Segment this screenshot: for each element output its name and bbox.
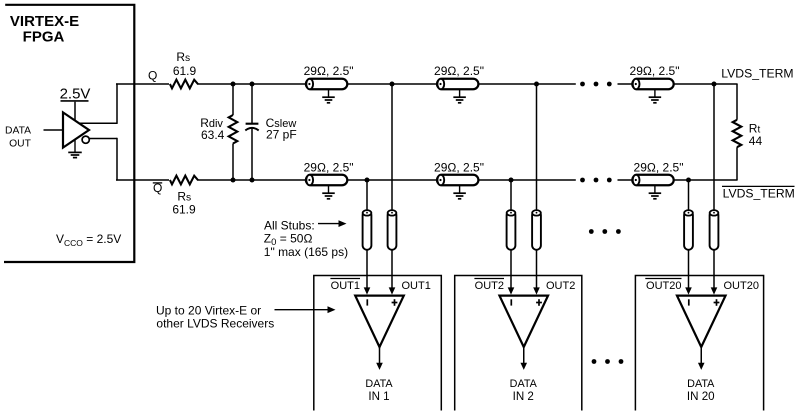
wire output receiver 20: [700, 347, 702, 363]
comparator triangle receiver 20: [677, 296, 726, 347]
wire output receiver 1: [379, 347, 381, 363]
stub (coax) right receiver 1: [388, 211, 397, 250]
svg-text:LVDS_TERM: LVDS_TERM: [721, 67, 793, 81]
wire bottom rail Qbar: [116, 179, 169, 181]
wire 2.5V to buffer: [74, 102, 76, 122]
junction dot bottom rail x=688.5: [686, 178, 691, 183]
svg-text:29Ω, 2.5": 29Ω, 2.5": [634, 160, 684, 174]
transmission line TL2b 29ohm (bottom rail): [437, 175, 478, 186]
pin minus: [510, 299, 512, 305]
pin plus: [536, 302, 542, 304]
svg-text:OUT: OUT: [9, 139, 31, 150]
ellipsis (bottom rail): [580, 178, 585, 183]
wire DATA OUT input: [44, 129, 64, 131]
svg-text:DATA: DATA: [510, 378, 538, 390]
svg-text:OUT20: OUT20: [646, 280, 681, 292]
svg-text:63.4: 63.4: [201, 128, 225, 142]
svg-text:61.9: 61.9: [172, 203, 196, 217]
wire stub drop right (receiver 20): [713, 84, 715, 288]
wire stub drop right (receiver 1): [391, 84, 393, 288]
resistor Rs (top): [170, 80, 198, 89]
op-amp buffer U1 (LVDS driver): [63, 112, 89, 147]
transmission line TL1a 29ohm (top rail): [306, 79, 347, 90]
arrowheads into receiver 2: [508, 287, 515, 294]
svg-text:Q: Q: [148, 68, 157, 82]
transmission line TL1b 29ohm (bottom rail): [306, 175, 347, 186]
wire stub drop right (receiver 2): [536, 84, 538, 288]
arrow All Stubs: [318, 223, 339, 225]
svg-text:29Ω, 2.5": 29Ω, 2.5": [434, 64, 484, 78]
svg-text:All Stubs:: All Stubs:: [264, 218, 315, 232]
resistor Rs (bottom): [170, 176, 198, 185]
svg-text:Up to 20 Virtex-E or: Up to 20 Virtex-E or: [156, 303, 261, 317]
junction dot top rail x=536.5: [534, 82, 539, 87]
receiver U1 box: [314, 276, 442, 411]
svg-text:OUT20: OUT20: [724, 280, 759, 292]
svg-text:IN 20: IN 20: [687, 390, 715, 403]
svg-text:29Ω, 2.5": 29Ω, 2.5": [304, 64, 354, 78]
stub (coax) right receiver 20: [710, 211, 719, 250]
transmission line TL3a 29ohm (top rail): [632, 79, 673, 90]
wire Q output: [80, 122, 118, 124]
resistor Rt: [736, 84, 738, 120]
junction dot top rail x=392: [390, 82, 395, 87]
ellipsis (stub level): [589, 229, 594, 234]
svg-text:other LVDS Receivers: other LVDS Receivers: [156, 316, 274, 330]
ellipsis (receiver level): [592, 359, 597, 364]
resistor Rdiv: [232, 84, 234, 115]
wire stub drop left (receiver 20): [688, 180, 690, 288]
svg-text:29Ω, 2.5": 29Ω, 2.5": [630, 64, 680, 78]
svg-text:44: 44: [749, 134, 763, 148]
pin minus: [688, 299, 690, 305]
svg-text:29Ω, 2.5": 29Ω, 2.5": [304, 160, 354, 174]
svg-text:DATA: DATA: [365, 378, 393, 390]
svg-text:OUT1: OUT1: [331, 280, 360, 292]
inversion bubble: [82, 136, 89, 143]
svg-text:Rs: Rs: [176, 50, 190, 64]
stub (coax) right receiver 2: [532, 211, 541, 250]
receiver U2 box: [455, 276, 582, 411]
comparator triangle receiver 2: [499, 296, 548, 347]
transmission line TL2a 29ohm (top rail): [437, 79, 478, 90]
label OUT20bar (overlined): [645, 278, 681, 280]
pin plus: [714, 302, 720, 304]
svg-text:29Ω, 2.5": 29Ω, 2.5": [434, 160, 484, 174]
stub (coax) left receiver 1: [363, 211, 372, 250]
stub (coax) left receiver 20: [684, 211, 693, 250]
pin minus: [366, 299, 368, 305]
arrowheads into receiver 20: [685, 287, 692, 294]
ellipsis (top rail): [580, 82, 585, 87]
svg-text:OUT2: OUT2: [546, 280, 575, 292]
stub (coax) left receiver 2: [507, 211, 516, 250]
svg-text:61.9: 61.9: [173, 64, 197, 78]
svg-text:LVDS_TERM: LVDS_TERM: [723, 186, 795, 200]
wire Qbar output: [89, 138, 117, 140]
svg-text:27 pF: 27 pF: [266, 128, 297, 142]
arrow to receivers: [275, 309, 328, 311]
svg-text:OUT1: OUT1: [402, 280, 431, 292]
svg-text:IN 1: IN 1: [368, 390, 389, 403]
capacitor Cslew: [251, 84, 253, 123]
junction dots Rdiv: [231, 82, 236, 87]
svg-text:Rs: Rs: [177, 189, 191, 203]
transmission line TL3b 29ohm (bottom rail): [632, 175, 673, 186]
svg-text:VIRTEX-E: VIRTEX-E: [10, 13, 79, 30]
wire stub drop left (receiver 2): [510, 180, 512, 288]
FPGA box: [4, 5, 134, 262]
svg-text:OUT2: OUT2: [475, 280, 504, 292]
receiver U20 box: [635, 276, 763, 411]
label LVDS_TERM (bottom, overlined): [722, 185, 795, 187]
svg-text:IN 2: IN 2: [513, 390, 534, 403]
junction dot top rail x=714: [712, 82, 717, 87]
junction dot bottom rail x=511: [509, 178, 514, 183]
svg-text:DATA: DATA: [5, 126, 31, 137]
svg-text:DATA: DATA: [687, 378, 715, 390]
label OUT1bar (overlined): [330, 278, 360, 280]
svg-text:2.5V: 2.5V: [60, 86, 91, 103]
wire stub drop left (receiver 1): [366, 180, 368, 288]
junction dot bottom rail x=367: [365, 178, 370, 183]
wire top rail Q: [116, 83, 169, 85]
svg-text:1" max (165 ps): 1" max (165 ps): [264, 245, 348, 259]
label OUT2bar (overlined): [474, 278, 504, 280]
svg-text:FPGA: FPGA: [23, 28, 65, 45]
wire output receiver 2: [523, 347, 525, 363]
junction dots Cslew: [250, 82, 255, 87]
arrowheads into receiver 1: [364, 287, 371, 294]
svg-text:VCCO = 2.5V: VCCO = 2.5V: [56, 232, 121, 248]
ground (buffer): [74, 140, 76, 153]
pin plus: [392, 302, 398, 304]
comparator triangle receiver 1: [355, 296, 404, 347]
